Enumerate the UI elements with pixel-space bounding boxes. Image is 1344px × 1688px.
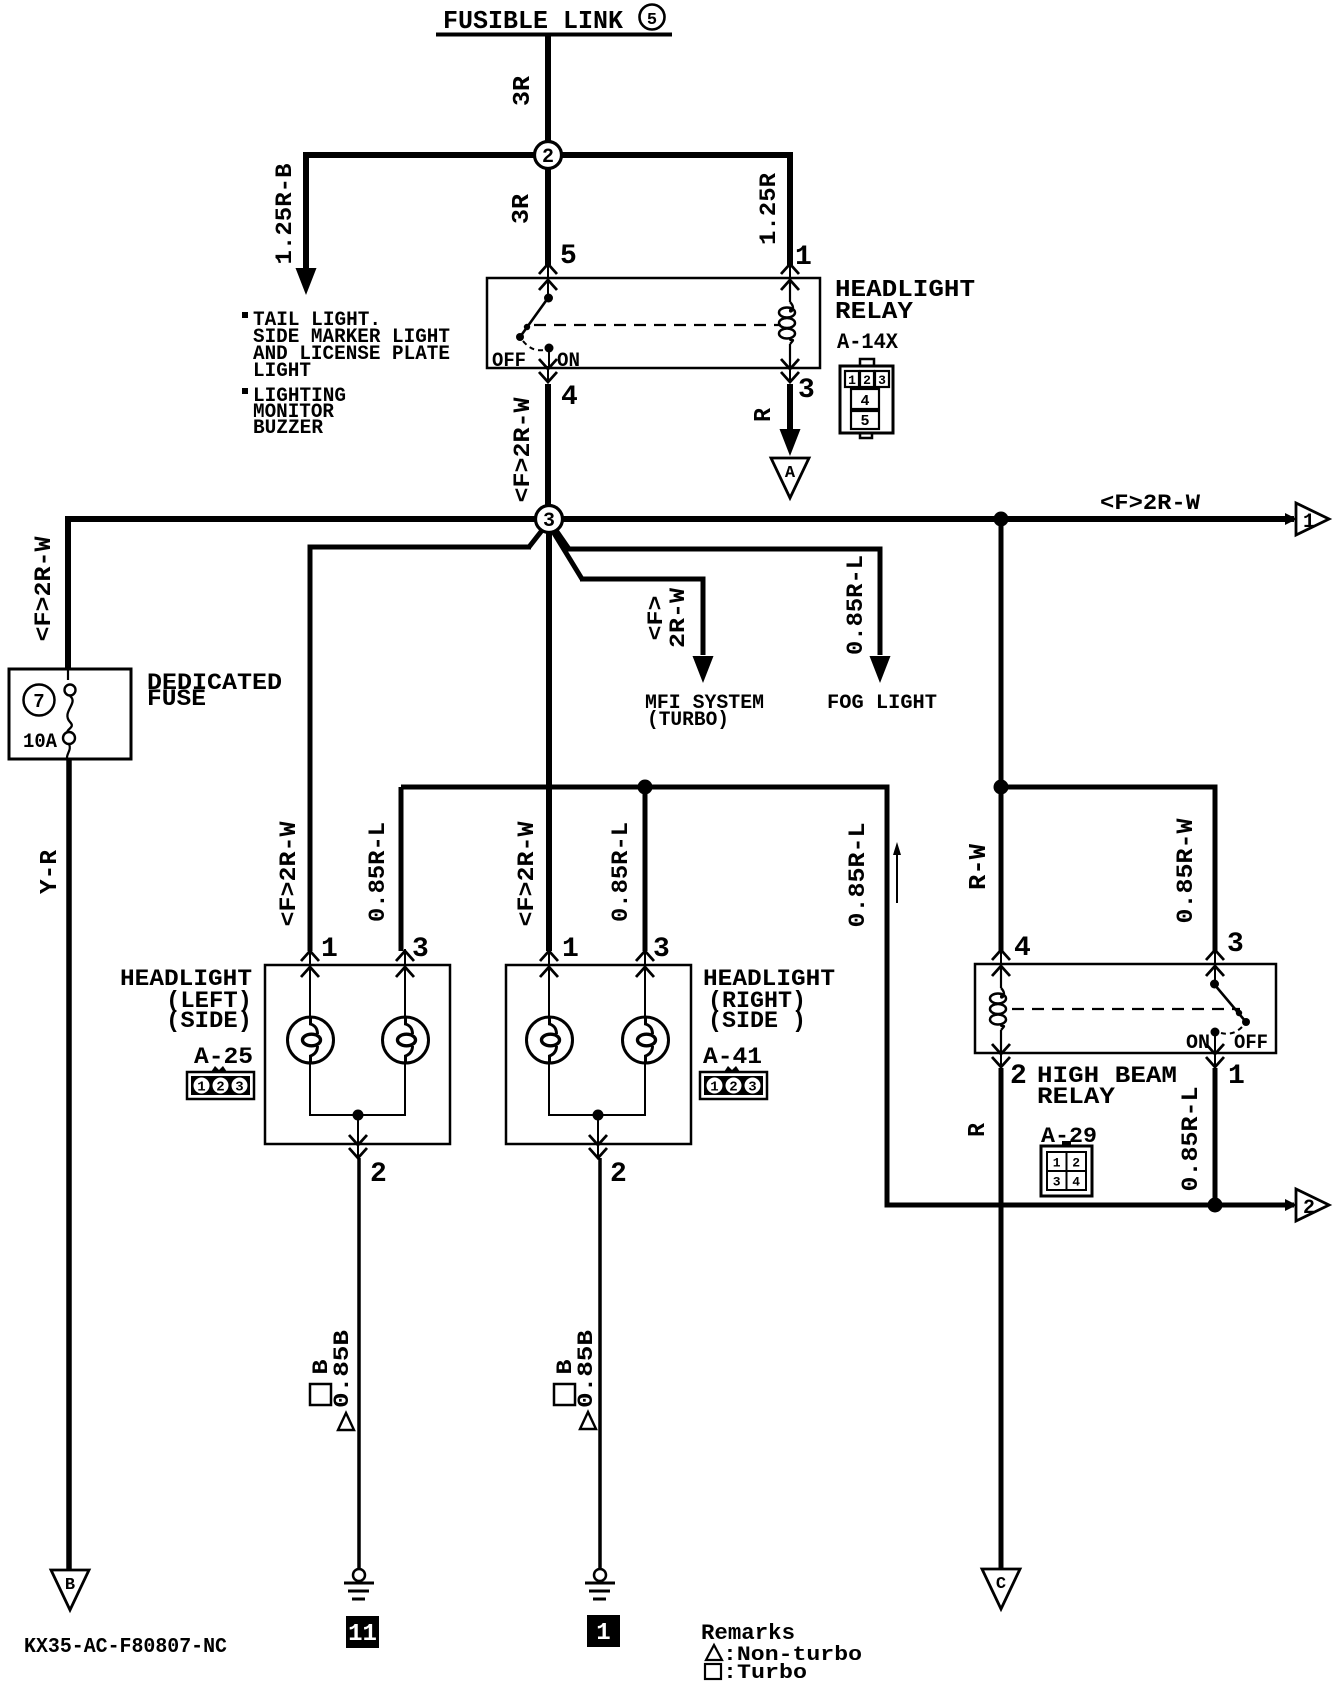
wire bus drop to right headlight pin 3 (643, 787, 648, 951)
svg-text:3: 3 (412, 934, 429, 965)
wire bus corner down (0.85R-L long run) (887, 785, 1294, 1206)
wire relay pin4 to node 3 ((F)2R-W) (545, 384, 551, 519)
svg-text:3: 3 (543, 510, 555, 533)
svg-text:<F>2R-W: <F>2R-W (1100, 491, 1201, 516)
HL-right interior ground wires (548, 1063, 550, 1115)
wire HL-left to ground 11 (357, 1158, 361, 1569)
svg-text:1: 1 (197, 1080, 205, 1096)
HB pin 1 arrows (1206, 1044, 1224, 1054)
svg-text:1: 1 (321, 934, 338, 965)
HL-left pin 2 arrows (349, 1135, 367, 1145)
svg-text:1.25R: 1.25R (756, 173, 782, 245)
wire fog light branch (567, 549, 880, 655)
relay ON contact dot (545, 344, 554, 353)
arrow to tail light circuit (296, 268, 317, 295)
svg-text:A-25: A-25 (194, 1044, 253, 1070)
HL-left high beam bulb (404, 966, 406, 1017)
headlight left box (265, 965, 450, 1144)
HB pin 3 arrows (1206, 950, 1224, 960)
node 3 (536, 506, 563, 533)
wire HB pin1 down (0.85R-L) (1213, 1068, 1218, 1205)
HL-right ground wire size label (non-turbo) (580, 1412, 596, 1429)
relay coil (789, 280, 791, 302)
connector icon A-14X (860, 359, 874, 366)
underline of fusible link title (436, 33, 672, 37)
svg-text:2: 2 (610, 1159, 627, 1190)
svg-text::Turbo: :Turbo (723, 1662, 807, 1685)
HL-right low beam bulb (548, 966, 550, 1017)
junction dot right of node 3 (994, 512, 1009, 527)
HL-left ground wire size label (turbo) (310, 1384, 331, 1405)
svg-text:0.85B: 0.85B (330, 1330, 355, 1408)
wire node2 to relay pin 5 (3R) (545, 155, 551, 265)
svg-text:Remarks: Remarks (701, 1621, 795, 1646)
junction dot R-W (994, 780, 1009, 795)
svg-text:3: 3 (235, 1080, 243, 1096)
ground symbol (right headlight) (594, 1569, 606, 1581)
svg-text:10A: 10A (23, 731, 57, 754)
relay switch lever (shown OFF) (520, 298, 548, 337)
svg-text:R: R (751, 407, 778, 422)
wire HB pin2 to triangle C (R) (999, 1068, 1004, 1571)
svg-text:1.25R-B: 1.25R-B (272, 163, 298, 264)
svg-text:3R: 3R (509, 193, 536, 224)
svg-text:<F>2R-W: <F>2R-W (31, 536, 57, 641)
svg-text:4: 4 (1014, 933, 1031, 964)
svg-text:RELAY: RELAY (835, 299, 914, 326)
wire node3 stub to fog light branch (551, 523, 569, 549)
HL-right ground wire size label (turbo) (554, 1384, 575, 1405)
svg-text:Y-R: Y-R (37, 849, 64, 894)
arrow to MFI system (693, 656, 714, 683)
HL-right interior junction dot (593, 1110, 604, 1121)
pin 5 connector arrows (539, 264, 557, 274)
wire fuse to triangle B (Y-R) (66, 759, 72, 1572)
HB switch contact (pin3 side) (1214, 966, 1216, 983)
headlight right box (506, 965, 691, 1144)
connector icon A-41 (700, 1072, 767, 1099)
wire bus drop to left headlight pin 3 (399, 787, 404, 951)
HL-left interior junction dot (353, 1110, 364, 1121)
svg-text:11: 11 (348, 1621, 377, 1648)
svg-text:(SIDE ): (SIDE ) (708, 1008, 806, 1034)
svg-text:1: 1 (1053, 1156, 1061, 1171)
fuse number circle 7 (24, 685, 55, 716)
svg-text:R: R (965, 1122, 992, 1137)
svg-text:2: 2 (370, 1159, 387, 1190)
svg-text:0.85R-L: 0.85R-L (608, 822, 634, 922)
HL-right pin 3 arrows (636, 951, 654, 961)
wire junction down to high-beam pin 4 (R-W) (999, 787, 1004, 951)
fuse element (67, 669, 69, 680)
arrow into triangle A (780, 429, 801, 456)
flow direction arrow (up) (896, 853, 898, 903)
wire HL-right to ground 1 (598, 1158, 602, 1569)
wire relay pin3 down (R) (787, 384, 793, 430)
wire left headlight branch (310, 547, 531, 951)
svg-text:3: 3 (748, 1080, 756, 1096)
connector icon A-25 (187, 1072, 254, 1099)
svg-text:A-14X: A-14X (837, 330, 899, 355)
svg-text:0.85R-W: 0.85R-W (1173, 818, 1199, 923)
pin 1 connector arrows (781, 264, 799, 274)
svg-text:1: 1 (1228, 1061, 1245, 1092)
svg-text:BUZZER: BUZZER (253, 417, 323, 440)
page connector triangle B (51, 1570, 89, 1610)
svg-text:2: 2 (1303, 1197, 1315, 1220)
svg-text:2R-W: 2R-W (666, 587, 691, 648)
svg-text:2: 2 (729, 1080, 737, 1096)
relay switch contact (pin5 side) (547, 280, 549, 298)
wire node3 down to right headlight pin 1 (546, 519, 552, 951)
svg-text:3: 3 (1053, 1175, 1061, 1190)
svg-text:ON: ON (557, 350, 580, 373)
HL-right pin 2 arrows (589, 1135, 607, 1145)
page connector arrow 2 (right edge) (1285, 1199, 1297, 1211)
node 2 (535, 142, 562, 169)
svg-text:2: 2 (216, 1080, 224, 1096)
page connector triangle A (771, 458, 809, 498)
svg-text:3R: 3R (510, 75, 537, 106)
svg-text:<F>2R-W: <F>2R-W (514, 821, 540, 926)
svg-text:FUSIBLE LINK: FUSIBLE LINK (443, 6, 623, 36)
HB relay mechanical dashed link (1012, 1008, 1240, 1010)
svg-text:2: 2 (1010, 1061, 1027, 1092)
destination text tail light / buzzer (242, 312, 248, 318)
wire 2R-W junction down to high beam relay (999, 519, 1004, 787)
HL-left pin 3 arrows (396, 951, 414, 961)
svg-text:FUSE: FUSE (147, 686, 206, 712)
svg-text:R-W: R-W (966, 843, 993, 890)
connector icon A-29 (1062, 1141, 1071, 1146)
svg-text:OFF: OFF (492, 350, 526, 373)
svg-text:3: 3 (653, 934, 670, 965)
svg-text:A: A (785, 464, 796, 483)
page connector triangle C (982, 1569, 1020, 1609)
junction dot on bus at right headlight (638, 780, 653, 795)
junction dot on 0.85R-L run (1208, 1198, 1223, 1213)
ground symbol (left headlight) (353, 1569, 365, 1581)
svg-text:2: 2 (1072, 1156, 1080, 1171)
svg-text:OFF: OFF (1234, 1032, 1268, 1055)
arrow to fog light (870, 656, 891, 683)
HL-left interior ground wires (309, 1063, 311, 1115)
wire node3 stub to left headlight branch (529, 524, 547, 547)
pin 4 connector arrows (539, 359, 557, 369)
svg-text:3: 3 (798, 375, 815, 406)
high beam relay box (975, 964, 1276, 1053)
svg-text:RELAY: RELAY (1037, 1084, 1115, 1110)
svg-text:0.85R-L: 0.85R-L (365, 822, 391, 922)
wire junction to high-beam pin 3 branch (1001, 787, 1215, 951)
svg-text:2: 2 (863, 373, 871, 388)
svg-text:1: 1 (596, 1620, 610, 1647)
svg-text:KX35-AC-F80807-NC: KX35-AC-F80807-NC (24, 1636, 227, 1659)
svg-text:(TURBO): (TURBO) (647, 709, 729, 732)
svg-text:0.85R-L: 0.85R-L (1178, 1087, 1204, 1192)
relay A-14X box (487, 278, 820, 368)
HL-right high beam bulb (644, 966, 646, 1017)
circled 5 on fusible link title (640, 5, 665, 30)
svg-text:A-41: A-41 (703, 1044, 762, 1070)
svg-text:B: B (65, 1576, 75, 1595)
HB switch lever (shown OFF) (1214, 984, 1246, 1022)
relay mechanical dashed link (534, 324, 781, 326)
svg-text:1: 1 (795, 242, 812, 273)
svg-text:LIGHT: LIGHT (253, 360, 311, 383)
wire fusible link to node 2 (3R) (545, 36, 551, 155)
svg-text:<F>2R-W: <F>2R-W (510, 397, 536, 502)
svg-text:4: 4 (860, 393, 869, 410)
svg-text:1: 1 (1303, 511, 1315, 534)
svg-text:<F>2R-W: <F>2R-W (276, 821, 302, 926)
wire 1.25R-B branch down-left (303, 152, 309, 272)
high beam relay coil (1000, 966, 1002, 988)
svg-text:1: 1 (562, 934, 579, 965)
svg-text:ON: ON (1186, 1032, 1210, 1055)
HL-left ground wire size label (non-turbo) (338, 1413, 354, 1430)
svg-text:FOG LIGHT: FOG LIGHT (827, 692, 937, 715)
wire horizontal at node 2 (307, 152, 790, 158)
svg-text:0.85B: 0.85B (574, 1330, 599, 1408)
HL-right pin 1 arrows (540, 951, 558, 961)
svg-text:2: 2 (542, 146, 554, 169)
wire node3 stub to MFI branch (549, 525, 582, 579)
ground tag 11 (346, 1616, 379, 1648)
svg-text:(SIDE): (SIDE) (166, 1008, 252, 1034)
svg-text:1: 1 (710, 1080, 718, 1096)
pin 3 connector arrows (781, 359, 799, 369)
HB ON contact dot (1211, 1028, 1220, 1037)
wire node2 corner to relay pin 1 (1.25R) (787, 152, 793, 265)
ground tag 1 (587, 1615, 620, 1647)
svg-text:C: C (996, 1575, 1006, 1594)
wire horizontal bus at node 3 ((F)2R-W) (65, 516, 1294, 522)
svg-text:0.85R-L: 0.85R-L (845, 823, 871, 928)
HL-left low beam bulb (309, 966, 311, 1017)
svg-text:7: 7 (33, 691, 44, 713)
svg-text:0.85R-L: 0.85R-L (843, 555, 869, 655)
wire left drop to dedicated fuse (65, 516, 71, 669)
svg-text:3: 3 (878, 373, 886, 388)
svg-text:4: 4 (561, 382, 578, 413)
HL-left pin 1 arrows (301, 951, 319, 961)
svg-text:5: 5 (860, 413, 869, 430)
HB pin 2 arrows (992, 1044, 1010, 1054)
wire MFI branch (580, 579, 703, 655)
svg-text:4: 4 (1072, 1175, 1080, 1190)
svg-text:5: 5 (647, 11, 657, 30)
svg-text:3: 3 (1227, 929, 1244, 960)
HB pin 4 arrows (992, 950, 1010, 960)
svg-text:1: 1 (848, 373, 856, 388)
page connector arrow 1 (right edge) (1285, 513, 1297, 525)
dedicated fuse box (9, 669, 131, 759)
svg-text:5: 5 (560, 241, 577, 272)
wire high-beam bus horizontal (401, 785, 887, 790)
